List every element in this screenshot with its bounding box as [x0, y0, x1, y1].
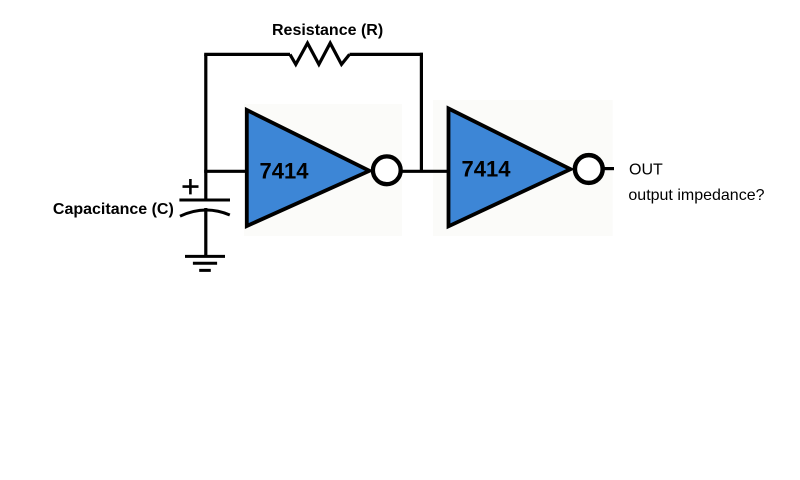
capacitor C plus sign [183, 179, 199, 194]
wire: input node horizontal into inverter 1 [204, 170, 247, 173]
wire: capacitor to ground [204, 208, 207, 256]
resistor R zigzag [290, 43, 350, 64]
svg-text:OUT: OUT [629, 162, 663, 179]
svg-text:7414: 7414 [462, 156, 512, 181]
ground symbol [185, 256, 225, 270]
pasted image tint behind inverter 1 [244, 104, 402, 236]
inverter U2 output bubble [575, 155, 603, 183]
wire: left vertical from capacitor up to top wire [204, 54, 207, 200]
svg-text:7414: 7414 [260, 158, 310, 183]
svg-text:output impedance?: output impedance? [628, 187, 764, 204]
inverter U1 output bubble [373, 156, 401, 184]
svg-text:Resistance (R): Resistance (R) [272, 22, 383, 39]
wire: feedback vertical down to inverter 1 output node [420, 53, 423, 172]
svg-text:Capacitance (C): Capacitance (C) [53, 201, 174, 218]
wire: top horizontal left segment [204, 53, 290, 56]
wire: top horizontal right segment [350, 53, 423, 56]
wire: output stub [604, 167, 614, 170]
capacitor C bottom curved plate [180, 210, 230, 216]
inverter U1 triangle [247, 110, 370, 226]
inverter U2 triangle [449, 109, 571, 227]
wire: inverter 1 output to inverter 2 input [402, 170, 449, 173]
capacitor C top plate [179, 199, 230, 202]
pasted image tint behind inverter 2 [433, 100, 613, 236]
